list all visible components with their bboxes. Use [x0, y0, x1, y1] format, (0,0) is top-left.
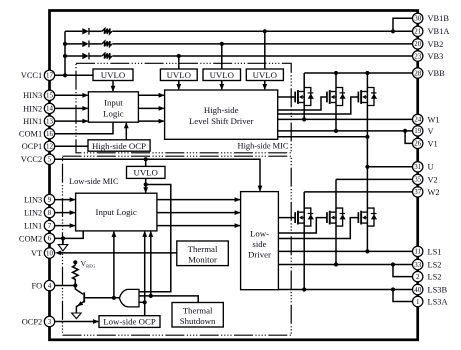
svg-text:LS2: LS2	[428, 273, 442, 282]
svg-text:Driver: Driver	[248, 250, 271, 260]
UVLO U2	[160, 69, 197, 81]
node V/Q2 source	[334, 129, 338, 133]
node VREG supply	[73, 260, 77, 265]
thermal monitor box	[177, 241, 229, 266]
wire VCC2 stub into low-side UVLO	[145, 159, 147, 166]
svg-text:1: 1	[416, 298, 420, 306]
wire low logic to driver arrow 3	[157, 223, 241, 228]
pin 26 V1	[413, 138, 438, 148]
ground symbol under Q7 emitter	[72, 313, 82, 319]
svg-text:35: 35	[414, 176, 422, 184]
logic gate G1 (fault OR gate, output left)	[119, 289, 139, 307]
wire branch1 feed into UVLO4	[264, 31, 266, 69]
resistor R4 (FO pull-up)	[73, 265, 79, 285]
UVLO U4	[246, 69, 283, 81]
pin 21 VB1A	[413, 26, 450, 36]
low-side OCP box	[99, 316, 160, 328]
node LS3 bracket	[391, 287, 395, 291]
node branch2/UVLO3 feed	[220, 42, 224, 46]
svg-text:High-side MIC: High-side MIC	[238, 142, 289, 151]
svg-text:Input Logic: Input Logic	[96, 207, 137, 217]
node LS2 bracket	[391, 262, 395, 266]
transistor Q6 (low-side U) (power MOSFET with body diode)	[358, 208, 378, 226]
wire gate drive Q4	[278, 217, 295, 219]
svg-text:LS2: LS2	[428, 260, 442, 269]
wire U line to pin 31	[367, 166, 412, 168]
svg-text:side: side	[252, 239, 266, 249]
svg-text:23: 23	[414, 52, 422, 60]
wire LS2 sense line to pin 33	[278, 264, 412, 266]
node U line/Q3 vertical	[365, 165, 369, 169]
node base line / logic feedback	[112, 296, 116, 300]
svg-text:High-side OCP: High-side OCP	[92, 141, 146, 151]
low-side driver box	[241, 192, 279, 290]
node OCP fault junction	[143, 300, 147, 304]
svg-text:33: 33	[414, 261, 422, 269]
svg-text:28: 28	[414, 69, 422, 77]
node branch1/UVLO4 feed	[263, 29, 267, 33]
node V/V1 bracket	[403, 129, 407, 133]
svg-text:VB2: VB2	[428, 40, 444, 49]
node COM2 ground tap	[61, 236, 65, 240]
wire OCP fault vertical (low-side OCP to logic)	[142, 231, 147, 316]
svg-text:V1: V1	[428, 139, 438, 148]
wire logic to driver arrow 3	[138, 119, 164, 124]
wire OCP2 arrow into low-side OCP	[55, 319, 99, 324]
wire low-side UVLO output arrow into input logic	[143, 178, 148, 193]
svg-text:4: 4	[48, 282, 52, 290]
node branch3/UVLO2 feed	[177, 54, 181, 58]
svg-text:11: 11	[414, 248, 421, 256]
UVLO U3	[203, 69, 241, 81]
svg-text:7: 7	[48, 222, 52, 230]
wire LIN1 arrow	[55, 223, 76, 228]
svg-text:VT: VT	[31, 249, 42, 258]
pin 33 LS2	[413, 259, 442, 269]
wire branch2 feed into UVLO3	[221, 44, 223, 69]
wire logic to driver arrow 2	[138, 106, 164, 111]
svg-text:8: 8	[48, 209, 52, 217]
transistor Q2 (high-side V) (power MOSFET with body diode)	[326, 88, 346, 106]
node U sense/Q3 vertical	[365, 135, 369, 139]
svg-text:Shutdown: Shutdown	[180, 316, 216, 326]
wire fault feedback arrow up into low-side logic	[112, 231, 117, 298]
svg-text:5: 5	[48, 156, 52, 164]
svg-text:U: U	[428, 163, 434, 172]
transistor Q3 (high-side U) (power MOSFET with body diode)	[358, 88, 378, 106]
ground symbol on COM2	[58, 238, 68, 250]
svg-text:W2: W2	[428, 188, 440, 197]
node bus/branch2	[63, 42, 67, 46]
pin 20 VB2	[413, 39, 444, 49]
svg-text:HIN1: HIN1	[23, 117, 42, 126]
node branch1/VB1B bracket	[391, 29, 395, 33]
svg-text:Thermal: Thermal	[188, 244, 218, 254]
wire branch3 feed into UVLO2	[178, 56, 180, 69]
pin 24 W1	[413, 114, 440, 124]
svg-text:19: 19	[414, 127, 422, 135]
wire FO to pull-up node	[55, 285, 76, 287]
pin 10 VT	[31, 248, 55, 258]
pin 11 LS1	[413, 246, 442, 256]
wire LIN2 arrow	[55, 210, 76, 215]
wire Q2 drain-source vertical	[335, 73, 337, 131]
IC outer package border	[50, 11, 418, 340]
pin 6 COM2	[19, 233, 55, 243]
diode D3	[82, 53, 88, 59]
diode D1	[82, 28, 88, 34]
svg-text:24: 24	[414, 116, 422, 124]
pin 8 LIN2	[24, 207, 55, 217]
wire U sense line from driver	[278, 136, 368, 138]
wire bootstrap branch 1 (to VB1A)	[65, 30, 82, 32]
wire TSD fault arrow up into low-side logic	[148, 231, 153, 296]
wire V1 bracket	[405, 131, 413, 144]
svg-text:OCP2: OCP2	[22, 317, 42, 326]
wire gate input 2 to thermal shutdown	[139, 296, 198, 303]
wire HIN2 arrow	[55, 106, 89, 111]
svg-text:UVLO: UVLO	[101, 70, 125, 80]
svg-text:Monitor: Monitor	[188, 255, 217, 265]
svg-text:Low-: Low-	[250, 229, 269, 239]
svg-text:37: 37	[414, 188, 422, 196]
svg-text:VBB: VBB	[428, 69, 446, 78]
pin 16 COM1	[19, 129, 55, 139]
wire LS1 sense line to pin 11	[278, 250, 412, 252]
node LS3/Q4 source	[302, 287, 306, 291]
svg-text:31: 31	[414, 163, 422, 171]
wire gate drive Q2	[278, 97, 327, 110]
high-side level shift driver box	[165, 90, 278, 139]
node FO/R4/Q7 collector	[73, 283, 77, 287]
wire gate drive Q5	[278, 218, 327, 233]
wire V2 line to pin 35	[336, 178, 413, 180]
low-side MIC boundary (dash-dot)	[63, 156, 292, 335]
pin 28 VBB	[413, 68, 446, 78]
pin 12 OCP1	[22, 141, 55, 151]
wire gate drive Q1	[278, 96, 296, 98]
high-side MIC boundary (dash-dot)	[76, 63, 291, 153]
svg-text:12: 12	[46, 143, 54, 151]
node on VCC1 wire at bootstrap bus	[63, 73, 67, 77]
svg-text:6: 6	[48, 235, 52, 243]
svg-text:16: 16	[46, 130, 54, 138]
wire HIN1 arrow	[55, 119, 89, 124]
svg-text:VREG: VREG	[81, 259, 97, 269]
svg-text:30: 30	[414, 15, 422, 23]
svg-text:3: 3	[48, 318, 52, 326]
UVLO U1 (high-side, left)	[93, 69, 133, 81]
transistor Q7 (FO open-collector NPN)	[75, 286, 85, 314]
wire gate input 3 stub	[139, 301, 145, 303]
pin 19 V	[413, 126, 434, 136]
svg-text:LS1: LS1	[428, 247, 442, 256]
wire bootstrap branch 3 (to VB3)	[65, 55, 82, 57]
svg-text:21: 21	[414, 28, 422, 36]
pin 9 LIN3	[24, 194, 55, 204]
svg-text:Input: Input	[104, 98, 123, 108]
wire bootstrap branch 2 (to VB2)	[65, 43, 82, 45]
wire W2 line to pin 37	[304, 191, 412, 193]
svg-text:10: 10	[46, 249, 54, 257]
svg-text:LS3B: LS3B	[428, 285, 448, 294]
high-side OCP box	[88, 140, 150, 151]
wire VBB bus	[304, 72, 412, 74]
pin 31 U	[413, 162, 434, 172]
svg-text:OCP1: OCP1	[22, 142, 42, 151]
svg-text:HIN2: HIN2	[23, 104, 42, 113]
wire VT output line with arrow to pin 10	[55, 251, 177, 256]
pin 37 W2	[413, 187, 440, 197]
svg-text:9: 9	[48, 196, 52, 204]
svg-text:2: 2	[416, 273, 420, 281]
wire UVLO1 output arrow into input logic	[111, 81, 116, 92]
svg-text:40: 40	[414, 286, 422, 294]
pin 4 FO	[31, 280, 54, 290]
svg-text:VB1A: VB1A	[428, 27, 450, 36]
svg-text:LIN3: LIN3	[24, 196, 42, 205]
node UVLO output branch	[144, 182, 148, 186]
wire Q7 base from fault gate output	[85, 297, 120, 299]
wire low logic to driver arrow 2	[157, 210, 241, 215]
pin 23 VB3	[413, 51, 444, 61]
svg-text:LS3A: LS3A	[428, 297, 448, 306]
svg-text:UVLO: UVLO	[210, 70, 234, 80]
wire UVLO4 output arrow	[262, 81, 267, 91]
thermal shutdown box	[172, 303, 223, 328]
high-side input logic box	[88, 92, 138, 122]
transistor Q1 (high-side W) (power MOSFET with body diode)	[294, 88, 314, 106]
svg-text:COM2: COM2	[19, 234, 42, 243]
wire COM2 to logic bottom	[55, 231, 83, 239]
node TSD fault / logic branch	[149, 294, 153, 298]
svg-text:LIN2: LIN2	[24, 209, 42, 218]
pin 14 HIN2	[23, 103, 55, 113]
wire high-side OCP output arrow up into logic	[124, 122, 129, 140]
svg-text:V: V	[428, 127, 434, 136]
wire UVLO2 output arrow into level shift driver	[176, 81, 181, 91]
wire VCC1 to UVLO1	[55, 74, 93, 76]
wire LS3 sense line to pin 40	[278, 289, 412, 291]
wire bootstrap bus vertical	[64, 31, 66, 75]
node W1/Q1 source	[302, 117, 306, 121]
pin 1 LS3A	[413, 296, 448, 306]
svg-text:Level Shift Driver: Level Shift Driver	[189, 116, 254, 126]
wire Q3 drain / phase-U vertical down to low side	[366, 73, 368, 251]
node bus/branch3	[63, 54, 67, 58]
pin 30 VB1B	[413, 13, 450, 23]
node VBB/Q3 drain	[365, 71, 369, 75]
wire logic to driver arrow 1	[138, 93, 164, 98]
pin 15 HIN3	[23, 90, 55, 100]
wire Q1 drain-source vertical	[303, 73, 305, 119]
svg-text:V2: V2	[428, 175, 438, 184]
wire COM1 to logic bottom	[55, 122, 113, 134]
svg-text:UVLO: UVLO	[167, 70, 191, 80]
wire gate drive Q3	[278, 97, 359, 114]
wire LS2 bracket to pin 2	[393, 265, 413, 277]
svg-text:26: 26	[414, 140, 422, 148]
svg-text:Thermal: Thermal	[183, 306, 213, 316]
svg-text:COM1: COM1	[19, 130, 42, 139]
pin 17 VCC1	[21, 70, 55, 80]
transistor Q4 (low-side W) (power MOSFET with body diode)	[294, 208, 314, 226]
low-side input logic box	[76, 193, 157, 231]
pin 3 OCP2	[22, 316, 55, 326]
wire UVLO fault line to FO gate input 1	[139, 185, 171, 292]
wire W1 sense line to pin 24	[278, 118, 413, 120]
svg-text:LIN1: LIN1	[24, 222, 42, 231]
resistor R2	[102, 41, 112, 46]
svg-text:W1: W1	[428, 115, 440, 124]
svg-text:High-side: High-side	[204, 105, 239, 115]
svg-text:VB3: VB3	[428, 52, 444, 61]
wire VB1B bracket	[393, 18, 413, 31]
node VBB/Q2 drain	[334, 71, 338, 75]
wire VCC2 rail to UVLO and low-side driver	[55, 159, 263, 191]
wire Q5 drain to V2 line	[335, 179, 337, 264]
wire HIN3 arrow	[55, 93, 89, 98]
wire Q4 drain to W2 line	[303, 192, 305, 290]
svg-text:HIN3: HIN3	[23, 91, 42, 100]
svg-text:Low-side OCP: Low-side OCP	[103, 317, 156, 327]
resistor R1	[102, 29, 112, 34]
svg-text:Logic: Logic	[103, 109, 124, 119]
svg-text:VCC2: VCC2	[21, 155, 42, 164]
svg-text:UVLO: UVLO	[133, 168, 157, 178]
pin 35 V2	[413, 174, 438, 184]
node VCC2/UVLO feed	[144, 157, 148, 161]
svg-text:15: 15	[46, 92, 54, 100]
svg-text:14: 14	[46, 105, 54, 113]
wire UVLO3 output arrow	[219, 81, 224, 91]
resistor R3	[102, 53, 112, 58]
UVLO U5 (low-side)	[127, 166, 166, 178]
svg-text:FO: FO	[31, 282, 42, 291]
pin 2 LS2	[413, 271, 442, 281]
wire OCP1 into high-side OCP box	[55, 145, 88, 147]
pin 40 LS3B	[413, 284, 448, 294]
node LS1/Q6 source	[365, 249, 369, 253]
svg-text:VB1B: VB1B	[428, 14, 450, 23]
wire V sense line to pin 19	[278, 130, 413, 132]
svg-text:17: 17	[46, 72, 54, 80]
wire LIN3 arrow	[55, 197, 76, 202]
transistor Q5 (low-side V) (power MOSFET with body diode)	[326, 208, 346, 226]
pin 13 HIN1	[23, 116, 55, 126]
wire LS3 bracket to pin 1	[393, 290, 413, 302]
wire low logic to driver arrow 1	[157, 197, 241, 202]
wire gate drive Q6	[278, 218, 358, 239]
svg-text:VCC1: VCC1	[21, 71, 42, 80]
node LS2/Q5 source	[334, 262, 338, 266]
pin 7 LIN1	[24, 220, 55, 230]
pin 5 VCC2	[21, 154, 55, 164]
svg-text:13: 13	[46, 117, 54, 125]
svg-text:20: 20	[414, 40, 422, 48]
svg-text:UVLO: UVLO	[253, 70, 277, 80]
svg-text:Low-side MIC: Low-side MIC	[69, 177, 119, 186]
diode D2	[82, 41, 88, 47]
